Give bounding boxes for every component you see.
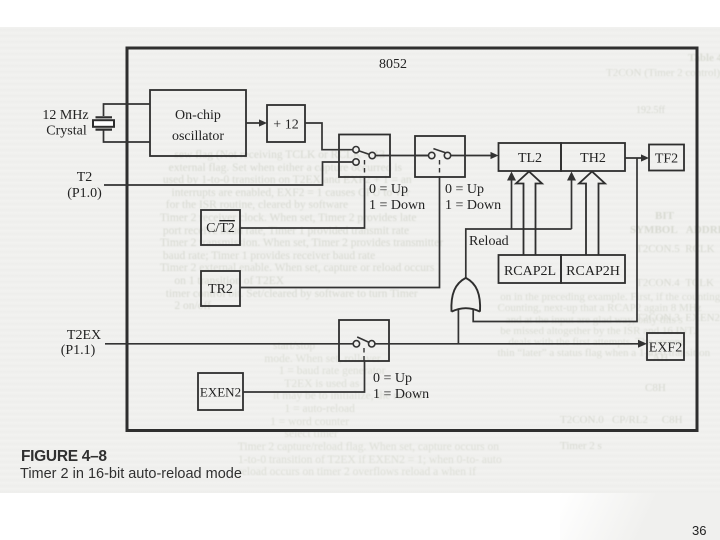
wire OR gate output to reload rail	[466, 229, 572, 279]
register RCAP2H	[561, 255, 625, 283]
register TF2	[649, 145, 684, 171]
svg-text:TR2: TR2	[208, 282, 233, 297]
register TH2	[561, 143, 625, 171]
wire reload rail to TH2	[571, 175, 573, 229]
ghost bleed-through text	[688, 52, 720, 64]
switch S2 contacts	[429, 149, 451, 159]
crystal Y1 top lead wire	[104, 104, 151, 116]
wire reload rail to TL2	[511, 175, 513, 229]
switch S2 control dashed	[439, 160, 441, 177]
wire switch S1 pole to switch S2	[375, 155, 428, 157]
svg-text:C/T2: C/T2	[206, 221, 235, 236]
svg-text:0 = Up: 0 = Up	[445, 182, 484, 197]
svg-text:1 = Down: 1 = Down	[369, 198, 425, 213]
crystal Y1 symbol	[93, 117, 114, 129]
svg-text:TH2: TH2	[580, 151, 606, 166]
svg-text:On-chip: On-chip	[175, 108, 221, 123]
wire T2EX line to EXF2	[105, 343, 353, 345]
switch S3 box (EXEN2 gate)	[339, 320, 389, 361]
register TL2	[499, 143, 562, 171]
svg-text:0 = Up: 0 = Up	[373, 371, 412, 386]
wire T2EX junction to OR gate input	[457, 309, 459, 344]
flag EXF2 box	[647, 333, 684, 360]
outer box 8052	[127, 48, 697, 431]
crystal Y1 bottom lead wire	[104, 131, 151, 143]
svg-text:TL2: TL2	[518, 151, 542, 166]
OR gate U3	[451, 278, 480, 312]
switch S3 control dashed	[363, 348, 365, 361]
switch S1 control dashed	[364, 160, 366, 177]
wire switch S3 pole output segment	[375, 343, 643, 345]
svg-text:1 = Down: 1 = Down	[445, 198, 501, 213]
wire T2 pin to switch S1 lower throw	[104, 162, 353, 185]
arrowhead switch S2 to TL2	[451, 155, 495, 157]
arrowhead reload to TL2	[507, 172, 516, 181]
svg-text:RCAP2H: RCAP2H	[566, 264, 620, 279]
wire into switch S2 left contact	[415, 155, 428, 157]
switch S2 box (TR2 gate)	[415, 136, 465, 177]
wire +12 to switch S1 upper throw	[305, 123, 353, 150]
arrowhead TH2 to TF2	[641, 154, 649, 161]
caption title	[20, 466, 242, 482]
svg-text:TF2: TF2	[655, 152, 678, 167]
wire C/T2 to switch S1 control	[240, 177, 365, 228]
arrowhead oscillator to +12	[246, 122, 263, 124]
divide-by-12 box U2	[267, 105, 305, 142]
on-chip oscillator box	[150, 90, 246, 156]
svg-text:RCAP2L: RCAP2L	[504, 264, 556, 279]
arrowhead T2EX line to EXF2	[638, 340, 647, 348]
page number	[692, 523, 706, 538]
switch S3 contacts	[353, 337, 375, 347]
switch S1 contacts	[353, 147, 376, 166]
wire TH2 to TF2	[625, 157, 645, 159]
bit EXEN2 box	[198, 373, 243, 410]
caption figure number	[21, 448, 107, 466]
svg-text:1 = Down: 1 = Down	[373, 387, 429, 402]
svg-text:(P1.1): (P1.1)	[61, 343, 96, 358]
wire EXEN2 to switch S3 control	[243, 361, 365, 392]
svg-text:Reload: Reload	[469, 234, 509, 249]
bit TR2 box	[201, 271, 240, 306]
arrowhead reload to TH2	[567, 172, 576, 181]
hollow arrow RCAP2H to TH2	[579, 172, 605, 256]
svg-text:T2EX: T2EX	[67, 328, 101, 343]
wire TR2 to switch S2 control	[240, 177, 440, 288]
svg-text:T2: T2	[77, 170, 93, 185]
svg-text:0 = Up: 0 = Up	[369, 182, 408, 197]
wire TH2 overflow down to OR gate input	[473, 158, 637, 322]
svg-text:8052: 8052	[379, 57, 407, 72]
svg-text:Crystal: Crystal	[46, 124, 87, 139]
svg-text:oscillator: oscillator	[172, 129, 224, 144]
switch S1 box (C/T2 select)	[339, 135, 390, 178]
svg-text:12 MHz: 12 MHz	[42, 108, 88, 123]
register RCAP2L	[499, 255, 562, 283]
bit C/T2 box	[201, 210, 240, 245]
svg-text:(P1.0): (P1.0)	[67, 186, 102, 201]
svg-text:+ 12: + 12	[273, 118, 298, 133]
svg-text:EXEN2: EXEN2	[200, 385, 241, 400]
svg-text:EXF2: EXF2	[649, 341, 682, 356]
hollow arrow RCAP2L to TL2	[516, 172, 542, 256]
